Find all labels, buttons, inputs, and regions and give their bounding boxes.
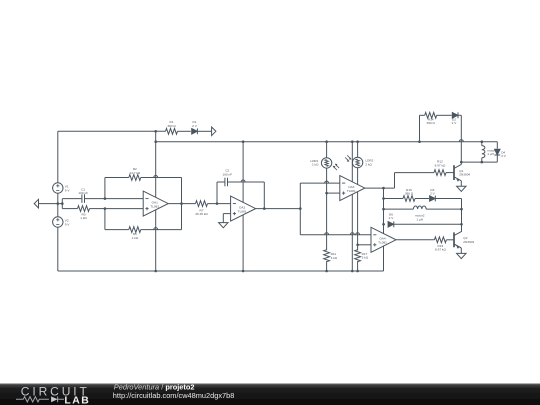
svg-text:LAB: LAB xyxy=(64,395,90,405)
svg-text:3 kΩ: 3 kΩ xyxy=(362,256,369,260)
svg-text:390 Ω: 390 Ω xyxy=(167,124,176,128)
svg-text:36.25 kΩ: 36.25 kΩ xyxy=(195,212,208,216)
svg-text:2 kΩ: 2 kΩ xyxy=(365,162,372,166)
svg-text:24.7 kΩ: 24.7 kΩ xyxy=(129,171,140,175)
svg-text:1 kΩ: 1 kΩ xyxy=(312,163,319,167)
svg-text:TL081: TL081 xyxy=(378,241,387,245)
svg-text:TL081: TL081 xyxy=(238,209,247,213)
svg-text:TL081: TL081 xyxy=(347,189,356,193)
svg-text:8.97 kΩ: 8.97 kΩ xyxy=(435,248,446,252)
svg-text:1 kΩ: 1 kΩ xyxy=(80,216,87,220)
svg-text:3 kΩ: 3 kΩ xyxy=(331,256,338,260)
svg-text:390 Ω: 390 Ω xyxy=(405,192,414,196)
svg-text:8.97 kΩ: 8.97 kΩ xyxy=(435,163,446,167)
svg-text:2N3904: 2N3904 xyxy=(463,240,474,244)
svg-text:100 nF: 100 nF xyxy=(222,172,232,176)
svg-text:1 kΩ: 1 kΩ xyxy=(132,236,139,240)
svg-text:http://circuitlab.com/cw48mu2d: http://circuitlab.com/cw48mu2dgx7b8 xyxy=(113,391,235,400)
svg-text:1 µH: 1 µH xyxy=(487,152,494,156)
svg-text:TL081: TL081 xyxy=(150,204,159,208)
svg-text:390 Ω: 390 Ω xyxy=(427,121,436,125)
svg-text:1 µH: 1 µH xyxy=(416,218,423,222)
svg-text:2N3904: 2N3904 xyxy=(459,173,470,177)
svg-text:100 nF: 100 nF xyxy=(78,191,88,195)
